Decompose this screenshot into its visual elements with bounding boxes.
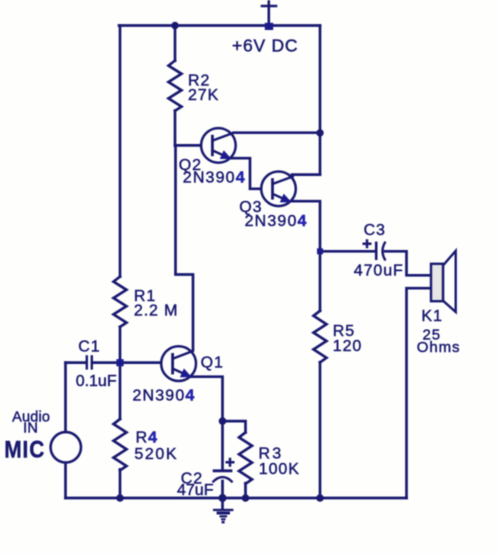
svg-text:IN: IN	[23, 421, 38, 437]
svg-text:MIC: MIC	[4, 436, 45, 463]
svg-text:R3: R3	[259, 446, 284, 463]
svg-text:27K: 27K	[188, 87, 219, 104]
svg-text:2.2 M: 2.2 M	[134, 303, 179, 320]
svg-text:Ohms: Ohms	[417, 339, 461, 356]
svg-text:C1: C1	[78, 339, 100, 356]
svg-text:520K: 520K	[134, 446, 178, 463]
svg-text:2N3904: 2N3904	[133, 388, 196, 405]
svg-text:R4: R4	[136, 430, 158, 447]
svg-text:0.1uF: 0.1uF	[76, 373, 117, 390]
svg-text:2N3904: 2N3904	[245, 213, 308, 230]
svg-text:2N3904: 2N3904	[183, 169, 246, 186]
svg-text:+6V DC: +6V DC	[232, 36, 298, 56]
svg-text:100K: 100K	[259, 461, 300, 478]
svg-text:47uF: 47uF	[177, 482, 214, 499]
svg-text:470uF: 470uF	[354, 263, 404, 280]
svg-text:K1: K1	[421, 308, 442, 325]
svg-text:C3: C3	[364, 222, 386, 239]
svg-text:Q1: Q1	[201, 354, 224, 371]
svg-text:120: 120	[333, 338, 362, 355]
